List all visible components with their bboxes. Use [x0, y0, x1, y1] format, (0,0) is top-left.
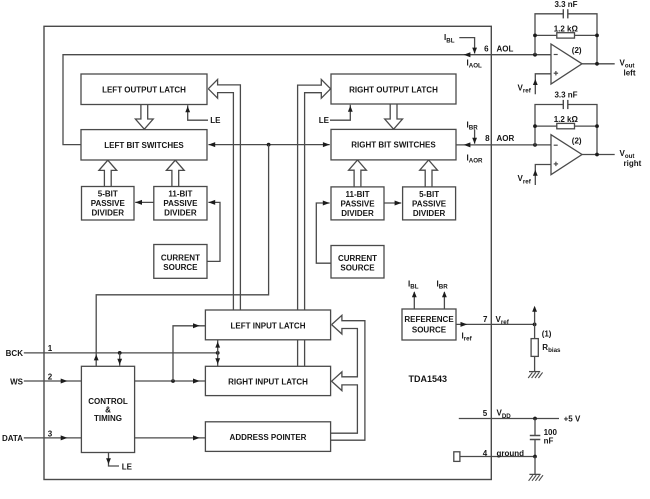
wire I_BR arrow from REFERENCE SOURCE top: [443, 292, 445, 309]
svg-text:100: 100: [544, 428, 558, 437]
svg-text:DIVIDER: DIVIDER: [413, 209, 446, 218]
svg-text:PASSIVE: PASSIVE: [163, 199, 198, 208]
wire feedback from CONTROL & TIMING up to bit-switch row: [96, 145, 268, 367]
block CURRENT SOURCE right: [331, 246, 384, 279]
node resistor right junction: [595, 34, 599, 38]
op-amp minus sign: [554, 54, 558, 56]
node junction on bit-switch row: [267, 143, 271, 147]
node BCK to inter-latch vertical: [216, 351, 220, 355]
wire capacitor to ground row: [534, 440, 536, 457]
arrowhead into 5-BIT divider left edge: [395, 201, 402, 206]
arrowhead V_ref up: [533, 170, 538, 176]
svg-text:LE: LE: [319, 116, 330, 125]
arrowhead I_BL down: [472, 48, 477, 54]
svg-text:SOURCE: SOURCE: [412, 326, 447, 335]
wire CURRENT SOURCE to 11-BIT divider left: [207, 202, 220, 261]
svg-text:REFERENCE: REFERENCE: [404, 315, 454, 324]
svg-text:RIGHT OUTPUT LATCH: RIGHT OUTPUT LATCH: [349, 85, 438, 94]
bus arrow LEFT OUTPUT LATCH down to LEFT BIT SWITCHES: [135, 104, 153, 129]
node output junction: [595, 153, 599, 157]
svg-text:left: left: [624, 68, 636, 77]
svg-text:ground: ground: [497, 449, 525, 458]
node AOR junction at feedback network: [533, 143, 537, 147]
block ADDRESS POINTER: [205, 422, 330, 452]
svg-text:8: 8: [485, 134, 490, 143]
wire V_ref pin 7 from REFERENCE SOURCE: [456, 323, 535, 325]
arrowhead up into LEFT INPUT LATCH: [215, 342, 220, 348]
wire BCK branch into CONTROL & TIMING: [119, 353, 121, 366]
wire I_BL arrow from REFERENCE SOURCE top: [413, 292, 415, 309]
wire WS branch up to LEFT INPUT LATCH: [173, 326, 205, 381]
arrowhead into 11-BIT divider right edge: [208, 200, 215, 205]
svg-text:CURRENT: CURRENT: [161, 253, 200, 262]
arrowhead V_ref up: [533, 79, 538, 85]
svg-text:PASSIVE: PASSIVE: [412, 199, 447, 208]
bus arrow into LEFT INPUT LATCH from ADDRESS POINTER: [331, 315, 365, 440]
wire BCK pin 1: [24, 352, 218, 354]
bus arrow into RIGHT OUTPUT LATCH from RIGHT INPUT LATCH: [298, 79, 331, 366]
block LEFT BIT SWITCHES: [81, 130, 207, 160]
resistor R1 1.2 kOhm body: [557, 33, 575, 38]
svg-text:AOL: AOL: [497, 44, 514, 53]
svg-text:LE: LE: [210, 116, 221, 125]
wire CURRENT SOURCE to 11-BIT divider right: [316, 203, 331, 263]
wire WS pin 2 into CONTROL & TIMING: [24, 380, 82, 382]
wire I_BR bias into AOR node: [474, 130, 476, 144]
capacitor C2 3.3 nF plates: [562, 100, 564, 109]
wire V_ref down to R_bias: [534, 324, 536, 338]
block CURRENT SOURCE left: [154, 245, 207, 279]
arrowhead DATA: [61, 435, 68, 440]
svg-text:3.3 nF: 3.3 nF: [554, 91, 577, 100]
wire capacitor branch C1: [535, 14, 563, 55]
arrowhead into 11-BIT divider left edge: [323, 201, 330, 206]
node resistor left junction: [533, 34, 537, 38]
ground symbol supply: [529, 473, 540, 475]
arrowhead I_BL up: [412, 291, 417, 297]
wire bit-switch interconnect row: [208, 144, 329, 146]
bus arrow 11-BIT PASSIVE DIVIDER up to RIGHT BIT SWITCHES: [349, 160, 367, 187]
svg-text:1.2 kΩ: 1.2 kΩ: [554, 115, 579, 124]
current arrow I_AOL on AOL wire: [464, 52, 471, 57]
arrowhead into ADDRESS POINTER left edge: [193, 435, 200, 440]
svg-text:5: 5: [483, 409, 488, 418]
wire DATA pin 3 into CONTROL & TIMING: [24, 437, 82, 439]
block LEFT INPUT LATCH: [205, 310, 330, 340]
capacitor C3 100 nF plates: [530, 435, 541, 437]
bus arrow RIGHT OUTPUT LATCH down to RIGHT BIT SWITCHES: [385, 104, 403, 129]
block 11-BIT PASSIVE DIVIDER right: [331, 187, 384, 220]
block CONTROL & TIMING: [81, 366, 134, 452]
ground symbol below R_bias: [529, 371, 540, 373]
svg-text:DIVIDER: DIVIDER: [92, 209, 125, 218]
svg-text:1: 1: [48, 344, 53, 353]
chip outline TDA1543: [44, 26, 491, 479]
svg-text:4: 4: [483, 449, 488, 458]
op-amp U1 triangle: [551, 44, 582, 84]
bus arrow into LEFT OUTPUT LATCH from LEFT INPUT LATCH: [208, 79, 240, 310]
node ground junction: [533, 455, 537, 459]
svg-text:RIGHT BIT SWITCHES: RIGHT BIT SWITCHES: [351, 141, 436, 150]
svg-text:CURRENT: CURRENT: [338, 254, 377, 263]
svg-text:TIMING: TIMING: [94, 414, 122, 423]
wire V_DD pin 5 to +5V: [459, 418, 559, 420]
wire op-amp output: [582, 63, 615, 65]
bus arrow 5-BIT PASSIVE DIVIDER up to LEFT BIT SWITCHES: [99, 160, 117, 187]
svg-text:2: 2: [48, 372, 53, 381]
block RIGHT INPUT LATCH: [205, 366, 330, 395]
arrowhead into LEFT INPUT LATCH left edge: [193, 323, 200, 328]
arrowhead WS: [61, 379, 68, 384]
svg-text:TDA1543: TDA1543: [409, 374, 448, 384]
svg-text:7: 7: [483, 315, 488, 324]
op-amp plus sign: [554, 72, 558, 74]
op-amp U2 triangle: [551, 135, 582, 175]
arrowhead into RIGHT BIT SWITCHES left edge: [323, 142, 330, 147]
svg-text:SOURCE: SOURCE: [340, 263, 375, 272]
wire V_ref up stub with arrow: [534, 308, 536, 325]
wire non-inverting input V_ref: [535, 165, 551, 186]
wire inter-latch exchange vertical: [217, 340, 219, 367]
wire resistor branch R2: [535, 125, 557, 127]
svg-text:PASSIVE: PASSIVE: [91, 199, 126, 208]
svg-text:LE: LE: [122, 462, 133, 471]
svg-text:right: right: [624, 159, 642, 168]
svg-text:6: 6: [484, 44, 489, 53]
node BCK junction: [118, 351, 122, 355]
svg-text:3: 3: [48, 429, 53, 438]
svg-text:ADDRESS POINTER: ADDRESS POINTER: [230, 433, 307, 442]
svg-text:LEFT BIT SWITCHES: LEFT BIT SWITCHES: [104, 141, 184, 150]
arrowhead I_BR down: [472, 138, 477, 144]
arrowhead LE up right: [348, 106, 353, 112]
op-amp plus sign: [554, 163, 558, 165]
node WS branch junction: [171, 379, 175, 383]
wire AOR from RIGHT BIT SWITCHES to op-amp U2 inverting input: [456, 144, 551, 146]
arrowhead V_ref node up: [532, 306, 537, 312]
svg-text:PASSIVE: PASSIVE: [340, 199, 375, 208]
wire LE latch-enable to LEFT OUTPUT LATCH: [188, 105, 208, 120]
svg-text:LEFT INPUT LATCH: LEFT INPUT LATCH: [231, 321, 306, 330]
wire 11-BIT to 5-BIT divider right: [384, 202, 401, 204]
arrowhead into 5-BIT divider right edge: [135, 200, 142, 205]
wire V_DD down to capacitor: [534, 419, 536, 436]
wire I_BL bias into AOL node: [459, 38, 474, 54]
svg-text:RIGHT INPUT LATCH: RIGHT INPUT LATCH: [228, 377, 308, 386]
svg-text:3.3 nF: 3.3 nF: [554, 0, 577, 9]
svg-text:BCK: BCK: [6, 349, 24, 358]
arrowhead I_BR up: [442, 291, 447, 297]
wire DATA out to ADDRESS POINTER: [135, 437, 206, 439]
svg-text:LEFT OUTPUT LATCH: LEFT OUTPUT LATCH: [102, 86, 186, 95]
svg-text:1.2 kΩ: 1.2 kΩ: [554, 24, 579, 33]
node resistor left junction: [533, 124, 537, 128]
bus arrow into RIGHT INPUT LATCH from ADDRESS POINTER: [331, 325, 358, 434]
block REFERENCE SOURCE: [402, 309, 456, 340]
svg-text:(2): (2): [572, 137, 582, 146]
block 11-BIT PASSIVE DIVIDER left: [154, 187, 207, 221]
wire LE latch-enable to RIGHT OUTPUT LATCH: [330, 105, 350, 120]
svg-text:+5 V: +5 V: [564, 415, 581, 424]
block 5-BIT PASSIVE DIVIDER right: [403, 187, 456, 220]
wire AOL from LEFT BIT SWITCHES to op-amp U1 inverting input: [63, 55, 552, 145]
arrowhead LE up left: [185, 106, 190, 112]
svg-text:5-BIT: 5-BIT: [98, 190, 118, 199]
svg-text:11-BIT: 11-BIT: [345, 190, 369, 199]
wire non-inverting input V_ref: [535, 74, 551, 95]
svg-text:DIVIDER: DIVIDER: [341, 209, 374, 218]
svg-text:SOURCE: SOURCE: [163, 263, 198, 272]
svg-text:DIVIDER: DIVIDER: [164, 209, 197, 218]
block LEFT OUTPUT LATCH: [81, 74, 207, 105]
wire resistor branch R1: [535, 34, 557, 36]
arrowhead BCK down into CONTROL & TIMING: [117, 359, 122, 365]
wire LE out of CONTROL & TIMING bottom: [109, 453, 120, 466]
op-amp minus sign: [554, 144, 558, 146]
arrowhead down into RIGHT INPUT LATCH: [215, 358, 220, 364]
svg-text:(1): (1): [542, 330, 552, 339]
resistor R_bias body: [531, 339, 538, 357]
node resistor right junction: [595, 124, 599, 128]
arrowhead into RIGHT INPUT LATCH left edge: [193, 379, 200, 384]
svg-text:DATA: DATA: [2, 434, 23, 443]
resistor R2 1.2 kOhm body: [557, 123, 575, 128]
wire ground pin 4: [460, 456, 535, 458]
wire op-amp output: [582, 154, 615, 156]
wire down to ground symbol: [534, 457, 536, 475]
bus arrow 11-BIT PASSIVE DIVIDER up to LEFT BIT SWITCHES: [166, 160, 184, 187]
svg-text:5-BIT: 5-BIT: [419, 190, 439, 199]
node V_ref junction: [533, 323, 537, 327]
svg-text:11-BIT: 11-BIT: [168, 190, 192, 199]
node AOL junction at feedback network: [533, 53, 537, 57]
wire R_bias to ground: [534, 356, 536, 371]
arrowhead up into BCK crossing: [94, 354, 99, 360]
arrowhead LE down bottom: [106, 458, 111, 464]
block RIGHT BIT SWITCHES: [331, 129, 456, 160]
svg-text:nF: nF: [544, 437, 554, 446]
current arrow I_AOR on AOR wire: [464, 142, 471, 147]
svg-text:AOR: AOR: [497, 134, 515, 143]
block RIGHT OUTPUT LATCH: [331, 74, 456, 104]
block 5-BIT PASSIVE DIVIDER left: [82, 187, 135, 221]
wire 11-BIT to 5-BIT divider left: [135, 201, 154, 203]
capacitor C1 3.3 nF plates: [562, 9, 564, 18]
ground tab symbol pin 4: [454, 452, 460, 462]
arrowhead into LEFT BIT SWITCHES right edge: [208, 142, 215, 147]
wire WS out of CONTROL & TIMING to RIGHT INPUT LATCH: [135, 380, 206, 382]
wire capacitor branch C2: [535, 105, 563, 146]
bus arrow 5-BIT PASSIVE DIVIDER up to RIGHT BIT SWITCHES: [420, 160, 438, 187]
svg-text:(2): (2): [572, 46, 582, 55]
node V_DD junction: [533, 417, 537, 421]
arrowhead I_ref right: [461, 322, 468, 327]
node output junction: [595, 62, 599, 66]
svg-text:WS: WS: [10, 377, 24, 386]
